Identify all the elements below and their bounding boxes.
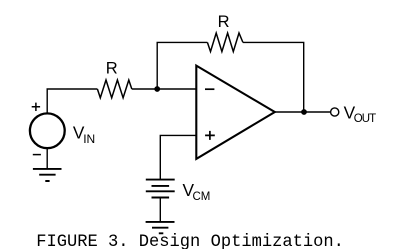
resistor R feedback zigzag	[207, 33, 243, 52]
battery VCM plates	[146, 180, 175, 198]
minus sign op-amp inverting input	[205, 88, 214, 90]
svg-text:IN: IN	[83, 132, 95, 146]
voltage source VIN circle	[30, 113, 65, 148]
ground VIN	[33, 169, 62, 181]
svg-text:OUT: OUT	[354, 113, 377, 125]
label VOUT	[344, 102, 377, 125]
plus sign op-amp non-inverting input	[205, 131, 215, 140]
node A junction dot	[154, 86, 160, 92]
wire feedback left vertical and top left	[157, 42, 207, 89]
wire node A to op-amp minus input	[157, 88, 196, 90]
terminal VOUT open circle	[331, 108, 339, 116]
svg-text:CM: CM	[193, 191, 211, 203]
label VCM	[183, 180, 211, 203]
svg-text:R: R	[106, 59, 118, 77]
wire op-amp plus input horizontal and down to battery VCM	[160, 135, 196, 179]
wire op-amp output	[275, 111, 331, 113]
wire resistor to node A	[132, 88, 157, 90]
svg-text:FIGURE 3. Design Optimization.: FIGURE 3. Design Optimization.	[36, 233, 344, 249]
label VIN	[73, 123, 95, 146]
wire feedback top right and right vertical	[243, 42, 304, 112]
minus sign of VIN	[33, 154, 41, 156]
resistor R input zigzag	[97, 80, 131, 98]
plus sign of VIN	[32, 103, 40, 111]
wire VIN bottom vertical	[46, 148, 48, 169]
ground VCM	[146, 222, 175, 233]
op-amp U1 triangle	[196, 66, 274, 159]
svg-text:R: R	[218, 13, 230, 31]
wire VIN top vertical and to resistor R input	[47, 89, 97, 114]
node B output junction dot	[301, 109, 307, 115]
wire battery VCM to ground	[159, 198, 161, 222]
